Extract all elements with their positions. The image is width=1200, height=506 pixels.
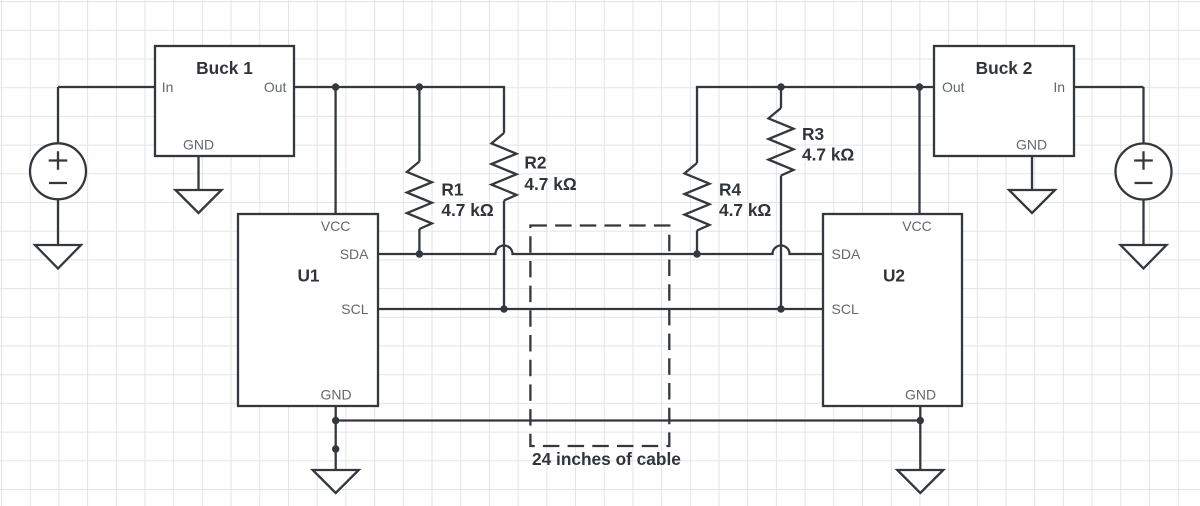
svg-text:R1: R1: [441, 180, 463, 200]
svg-text:4.7 kΩ: 4.7 kΩ: [441, 200, 493, 220]
svg-text:VCC: VCC: [902, 218, 932, 234]
svg-text:R3: R3: [802, 124, 824, 144]
svg-text:U2: U2: [883, 266, 905, 286]
svg-text:SDA: SDA: [340, 246, 369, 262]
svg-text:4.7 kΩ: 4.7 kΩ: [719, 200, 771, 220]
svg-text:SCL: SCL: [341, 301, 368, 317]
svg-text:GND: GND: [320, 387, 351, 403]
svg-text:GND: GND: [183, 137, 214, 153]
svg-text:R4: R4: [719, 180, 741, 200]
svg-text:Out: Out: [942, 79, 965, 95]
svg-text:4.7 kΩ: 4.7 kΩ: [524, 174, 576, 194]
svg-text:In: In: [162, 79, 174, 95]
svg-text:Buck 1: Buck 1: [196, 58, 253, 78]
svg-text:R2: R2: [524, 153, 546, 173]
svg-text:24 inches of cable: 24 inches of cable: [532, 449, 681, 469]
svg-text:Out: Out: [264, 79, 287, 95]
svg-text:GND: GND: [1016, 137, 1047, 153]
svg-text:SDA: SDA: [832, 246, 861, 262]
svg-text:GND: GND: [905, 387, 936, 403]
svg-text:4.7 kΩ: 4.7 kΩ: [802, 145, 854, 165]
svg-text:Buck 2: Buck 2: [976, 58, 1033, 78]
svg-text:In: In: [1053, 79, 1065, 95]
svg-text:SCL: SCL: [832, 301, 859, 317]
svg-text:VCC: VCC: [321, 218, 351, 234]
svg-text:U1: U1: [297, 266, 319, 286]
